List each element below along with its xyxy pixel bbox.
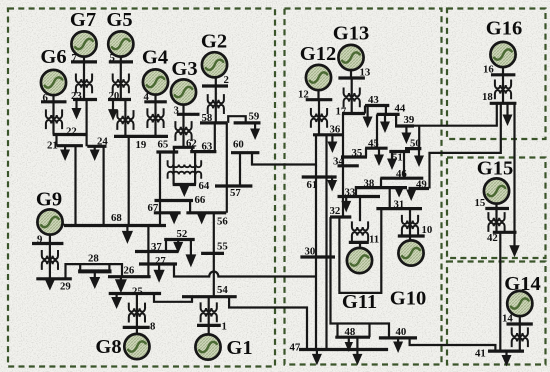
svg-text:22: 22 — [66, 126, 77, 138]
svg-text:38: 38 — [364, 178, 375, 190]
svg-text:9: 9 — [37, 234, 43, 246]
svg-text:66: 66 — [195, 194, 206, 206]
svg-text:18: 18 — [482, 91, 493, 103]
svg-text:61: 61 — [307, 179, 318, 191]
svg-text:51: 51 — [392, 152, 403, 164]
svg-text:G14: G14 — [504, 273, 540, 295]
svg-text:43: 43 — [368, 94, 379, 106]
svg-text:57: 57 — [230, 187, 241, 199]
svg-text:5: 5 — [110, 52, 115, 64]
svg-text:25: 25 — [132, 286, 143, 298]
svg-text:4: 4 — [144, 91, 150, 103]
svg-text:67: 67 — [148, 202, 159, 214]
svg-text:33: 33 — [345, 187, 356, 199]
svg-text:G15: G15 — [477, 158, 513, 180]
svg-text:44: 44 — [395, 103, 406, 115]
svg-text:G3: G3 — [171, 58, 197, 80]
svg-text:8: 8 — [150, 321, 156, 333]
svg-text:28: 28 — [88, 253, 99, 265]
svg-text:13: 13 — [360, 67, 371, 79]
svg-text:41: 41 — [475, 348, 486, 360]
svg-text:46: 46 — [396, 168, 407, 180]
svg-text:G11: G11 — [342, 291, 377, 313]
svg-text:20: 20 — [109, 90, 120, 102]
svg-text:37: 37 — [151, 241, 162, 253]
svg-text:52: 52 — [177, 228, 188, 240]
svg-text:G4: G4 — [142, 47, 168, 69]
svg-text:6: 6 — [43, 92, 49, 104]
svg-text:42: 42 — [487, 232, 498, 244]
svg-text:36: 36 — [330, 124, 341, 136]
svg-text:10: 10 — [422, 224, 433, 236]
svg-text:49: 49 — [416, 179, 427, 191]
svg-text:19: 19 — [136, 139, 147, 151]
svg-text:58: 58 — [202, 112, 213, 124]
svg-text:G5: G5 — [106, 9, 132, 31]
svg-text:24: 24 — [97, 136, 108, 148]
svg-text:G13: G13 — [333, 23, 369, 45]
svg-text:7: 7 — [72, 52, 78, 64]
svg-text:45: 45 — [368, 138, 379, 150]
svg-text:26: 26 — [124, 265, 135, 277]
svg-text:30: 30 — [305, 246, 316, 258]
svg-text:68: 68 — [111, 212, 122, 224]
svg-text:G12: G12 — [300, 43, 336, 65]
svg-text:G8: G8 — [95, 336, 121, 358]
svg-text:35: 35 — [352, 147, 363, 159]
svg-text:16: 16 — [483, 64, 494, 76]
svg-text:G16: G16 — [486, 18, 522, 40]
svg-text:64: 64 — [199, 180, 210, 192]
svg-text:27: 27 — [155, 255, 166, 267]
svg-text:17: 17 — [336, 106, 347, 118]
svg-text:34: 34 — [333, 156, 344, 168]
svg-text:G10: G10 — [390, 288, 426, 310]
svg-text:21: 21 — [47, 140, 58, 152]
svg-text:1: 1 — [222, 321, 227, 333]
svg-text:40: 40 — [396, 326, 407, 338]
svg-text:39: 39 — [404, 114, 415, 126]
svg-text:2: 2 — [224, 74, 229, 86]
svg-text:65: 65 — [158, 139, 169, 151]
svg-text:11: 11 — [369, 234, 379, 246]
svg-text:59: 59 — [249, 111, 260, 123]
svg-text:60: 60 — [233, 139, 244, 151]
svg-text:32: 32 — [330, 205, 341, 217]
svg-text:G6: G6 — [40, 46, 66, 68]
svg-text:14: 14 — [502, 313, 513, 325]
svg-text:15: 15 — [475, 197, 486, 209]
svg-text:23: 23 — [71, 90, 82, 102]
svg-text:3: 3 — [174, 105, 180, 117]
svg-text:G9: G9 — [36, 189, 62, 211]
svg-text:56: 56 — [217, 216, 228, 228]
svg-text:29: 29 — [60, 281, 71, 293]
svg-text:G1: G1 — [226, 337, 252, 359]
svg-text:55: 55 — [217, 241, 228, 253]
svg-text:50: 50 — [410, 138, 421, 150]
svg-text:48: 48 — [345, 326, 356, 338]
svg-text:63: 63 — [202, 141, 213, 153]
svg-text:12: 12 — [298, 89, 309, 101]
svg-text:62: 62 — [186, 138, 197, 150]
svg-text:G2: G2 — [201, 31, 227, 53]
svg-text:G7: G7 — [70, 9, 96, 31]
svg-text:31: 31 — [394, 199, 405, 211]
svg-text:54: 54 — [217, 284, 228, 296]
svg-text:47: 47 — [290, 342, 301, 354]
